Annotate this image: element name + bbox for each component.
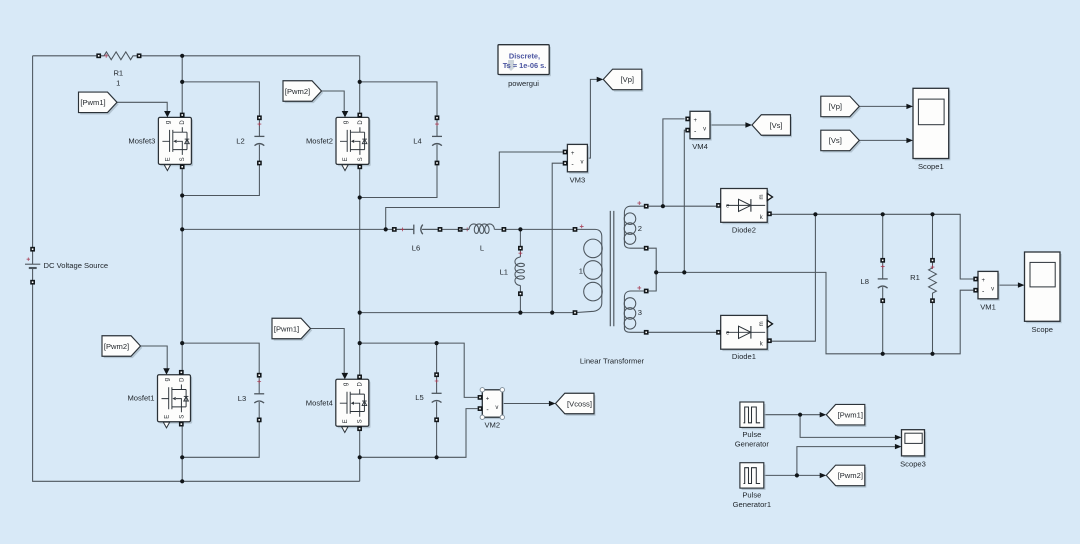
svg-text:L6: L6 [412, 244, 420, 253]
svg-text:powergui: powergui [508, 79, 539, 88]
svg-text:+: + [693, 118, 697, 124]
svg-text:[Pwm1]: [Pwm1] [274, 324, 299, 333]
svg-text:Generator: Generator [735, 439, 770, 448]
svg-text:v: v [495, 405, 498, 411]
svg-text:D: D [358, 120, 364, 125]
svg-text:Mosfet2: Mosfet2 [306, 136, 333, 145]
svg-text:VM1: VM1 [980, 302, 996, 311]
svg-text:D: D [180, 120, 186, 125]
svg-text:L4: L4 [413, 137, 421, 146]
svg-text:L3: L3 [238, 394, 246, 403]
svg-text:[Vs]: [Vs] [829, 136, 842, 145]
svg-text:[Pwm2]: [Pwm2] [285, 87, 310, 96]
svg-text:Scope1: Scope1 [918, 162, 944, 171]
svg-text:g: g [165, 378, 171, 381]
svg-text:D: D [179, 377, 185, 382]
svg-text:Scope: Scope [1031, 325, 1053, 334]
svg-text:L: L [480, 244, 484, 253]
svg-text:Pulse: Pulse [742, 430, 761, 439]
svg-text:VM2: VM2 [484, 421, 500, 430]
svg-text:Pulse: Pulse [742, 491, 761, 500]
svg-text:v: v [991, 286, 994, 292]
svg-text:[Pwm2]: [Pwm2] [838, 471, 863, 480]
svg-text:Linear Transformer: Linear Transformer [580, 357, 645, 366]
svg-text:+: + [981, 278, 985, 284]
svg-text:E: E [165, 415, 171, 419]
svg-text:Mosfet1: Mosfet1 [127, 394, 154, 403]
svg-text:S: S [358, 419, 364, 423]
svg-text:E: E [165, 157, 171, 161]
svg-text:E: E [343, 419, 349, 423]
svg-text:VM4: VM4 [692, 142, 708, 151]
svg-text:2: 2 [638, 224, 642, 233]
svg-text:[Vp]: [Vp] [829, 102, 843, 111]
svg-text:L2: L2 [236, 137, 244, 146]
svg-text:m: m [759, 195, 765, 200]
svg-text:L5: L5 [415, 393, 423, 402]
svg-text:Ts = 1e-06 s.: Ts = 1e-06 s. [503, 61, 547, 70]
svg-text:v: v [703, 126, 706, 132]
svg-text:Diode2: Diode2 [732, 225, 756, 234]
svg-text:S: S [179, 415, 185, 419]
svg-text:[Vcoss]: [Vcoss] [567, 399, 592, 408]
svg-text:R1: R1 [910, 273, 920, 282]
svg-text:3: 3 [638, 308, 642, 317]
svg-text:v: v [581, 159, 584, 165]
svg-text:E: E [343, 157, 349, 161]
svg-text:S: S [358, 157, 364, 161]
svg-text:g: g [343, 383, 349, 386]
svg-text:L1: L1 [500, 268, 508, 277]
svg-text:Mosfet3: Mosfet3 [128, 136, 155, 145]
svg-text:1: 1 [116, 79, 120, 88]
svg-text:[Pwm2]: [Pwm2] [104, 342, 129, 351]
svg-text:L8: L8 [860, 277, 868, 286]
svg-text:[Pwm1]: [Pwm1] [838, 411, 863, 420]
svg-text:+: + [486, 396, 490, 402]
svg-text:+: + [571, 151, 575, 157]
svg-text:DC Voltage Source: DC Voltage Source [44, 261, 109, 270]
svg-text:D: D [358, 381, 364, 386]
svg-text:VM3: VM3 [570, 175, 586, 184]
svg-text:R1: R1 [113, 68, 123, 77]
svg-text:Diode1: Diode1 [732, 352, 756, 361]
svg-text:1: 1 [579, 266, 583, 275]
svg-text:Discrete,: Discrete, [509, 51, 540, 60]
svg-text:Scope3: Scope3 [900, 459, 926, 468]
svg-text:[Vs]: [Vs] [769, 121, 782, 130]
svg-text:g: g [343, 121, 349, 124]
svg-text:m: m [759, 321, 765, 326]
svg-text:[Vp]: [Vp] [621, 75, 635, 84]
svg-text:g: g [165, 121, 171, 124]
svg-text:S: S [180, 157, 186, 161]
svg-text:Generator1: Generator1 [733, 500, 771, 509]
svg-text:Mosfet4: Mosfet4 [306, 398, 333, 407]
svg-text:[Pwm1]: [Pwm1] [80, 98, 105, 107]
